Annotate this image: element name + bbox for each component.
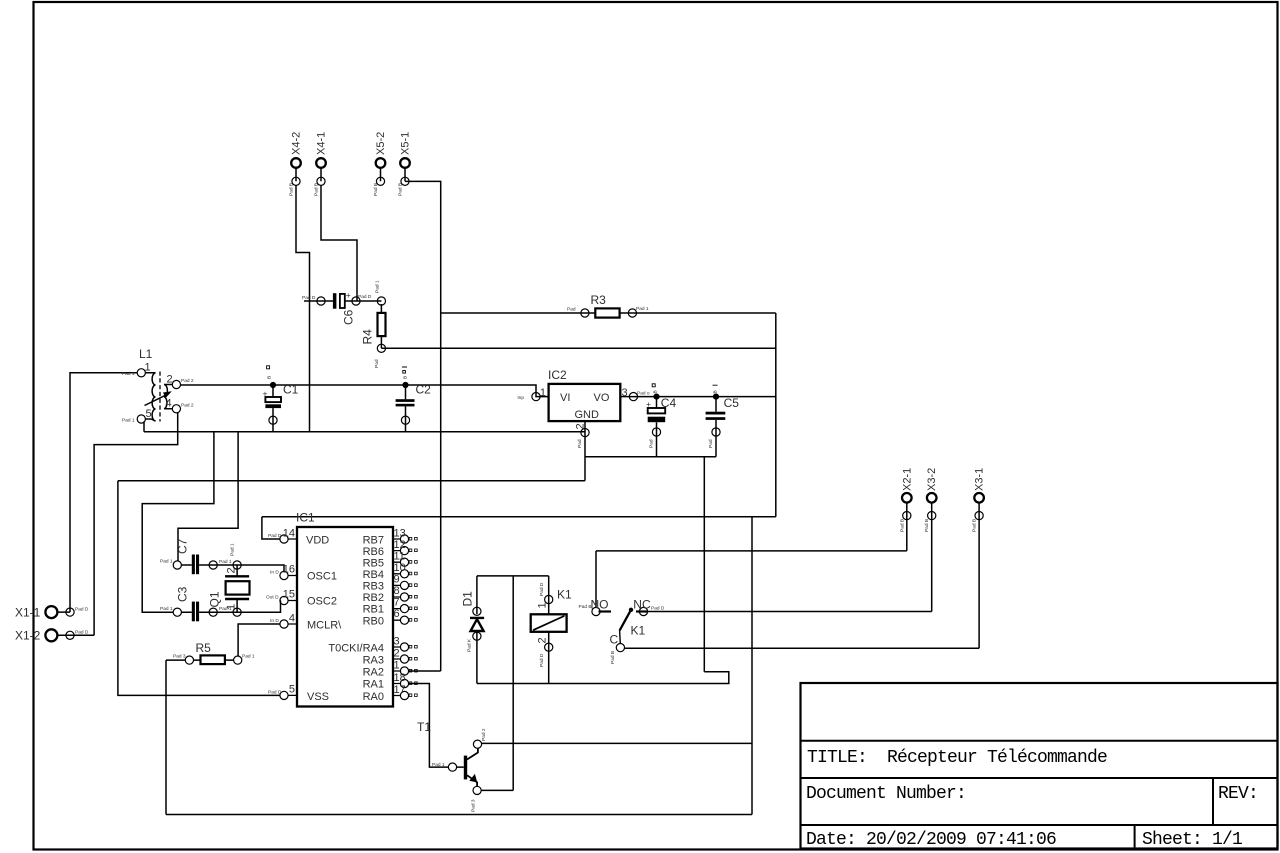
svg-text:Inp: Inp (517, 395, 524, 401)
svg-text:B: B (653, 390, 659, 393)
svg-text:Pad D: Pad D (358, 294, 372, 300)
svg-text:RB1: RB1 (363, 604, 384, 616)
svg-text:Pad 2: Pad 2 (181, 402, 194, 408)
svg-text:Pad 3: Pad 3 (173, 654, 186, 660)
svg-text:C6: C6 (342, 309, 356, 325)
svg-text:In D: In D (270, 570, 279, 576)
svg-text:K1: K1 (557, 588, 572, 602)
svg-text:Pad 1: Pad 1 (375, 280, 381, 293)
svg-text:K1: K1 (631, 624, 646, 638)
svg-text:Pad 2: Pad 2 (481, 728, 487, 741)
svg-text:4: 4 (289, 613, 295, 625)
svg-text:OSC2: OSC2 (307, 596, 337, 608)
svg-text:Pad 1: Pad 1 (219, 606, 232, 612)
svg-text:C3: C3 (175, 586, 189, 602)
svg-text:Pad 1: Pad 1 (242, 654, 255, 660)
svg-text:Pad D: Pad D (651, 606, 665, 612)
svg-text:VSS: VSS (307, 691, 329, 703)
svg-text:2: 2 (394, 648, 400, 660)
svg-text:L1: L1 (139, 347, 153, 361)
svg-text:Pad 1: Pad 1 (432, 762, 445, 768)
svg-text:VO: VO (594, 392, 610, 404)
svg-text:Sheet: 1/1: Sheet: 1/1 (1142, 830, 1242, 850)
svg-text:14: 14 (283, 528, 295, 540)
svg-text:+: + (346, 290, 351, 300)
svg-text:X1-1: X1-1 (15, 606, 41, 620)
svg-text:R3: R3 (591, 293, 607, 307)
svg-text:Pad 1: Pad 1 (160, 606, 173, 612)
svg-text:NO: NO (591, 598, 609, 612)
svg-text:Pad 1: Pad 1 (122, 417, 135, 423)
svg-text:REV:: REV: (1218, 784, 1258, 804)
svg-text:Pad D: Pad D (75, 607, 89, 613)
svg-text:B: B (403, 376, 409, 379)
svg-text:12: 12 (394, 539, 406, 551)
svg-text:Pad B: Pad B (398, 183, 404, 196)
svg-text:Pad 1: Pad 1 (230, 543, 236, 556)
svg-text:IC2: IC2 (548, 368, 567, 382)
svg-text:Document Number:: Document Number: (806, 784, 966, 804)
svg-text:3: 3 (622, 387, 628, 399)
svg-text:17: 17 (394, 684, 406, 696)
svg-text:C5: C5 (724, 396, 740, 410)
svg-text:Pad 1: Pad 1 (636, 306, 649, 312)
svg-text:X3-2: X3-2 (926, 468, 938, 491)
svg-text:Pad D: Pad D (302, 295, 316, 301)
svg-text:RA2: RA2 (363, 667, 384, 679)
svg-text:X3-1: X3-1 (974, 468, 986, 491)
svg-text:Pad 3: Pad 3 (471, 799, 477, 812)
svg-text:TITLE: Récepteur Télécommande: TITLE: Récepteur Télécommande (807, 748, 1107, 768)
svg-text:Pad B: Pad B (579, 604, 592, 610)
svg-text:+: + (263, 389, 268, 399)
svg-text:Pad B: Pad B (899, 519, 905, 532)
svg-text:Out D: Out D (266, 595, 279, 601)
svg-text:C: C (610, 633, 619, 647)
svg-text:B: B (267, 376, 273, 379)
svg-text:1: 1 (537, 602, 549, 608)
svg-text:In D: In D (270, 618, 279, 624)
svg-text:Pad K: Pad K (467, 638, 473, 652)
svg-text:IC1: IC1 (296, 511, 315, 525)
svg-text:11: 11 (394, 551, 405, 563)
svg-text:T1: T1 (417, 720, 431, 734)
svg-text:C4: C4 (661, 396, 677, 410)
svg-text:RB7: RB7 (363, 535, 384, 547)
svg-text:VDD: VDD (306, 535, 329, 547)
svg-text:Pad D: Pad D (539, 653, 545, 667)
svg-text:16: 16 (283, 564, 295, 576)
svg-text:NC: NC (633, 597, 651, 611)
svg-text:Pad D: Pad D (75, 630, 89, 636)
svg-text:RA1: RA1 (363, 679, 384, 691)
svg-text:OSC1: OSC1 (307, 571, 337, 583)
svg-text:Pad B: Pad B (924, 519, 930, 532)
svg-text:T0CKI/RA4: T0CKI/RA4 (328, 643, 384, 655)
svg-text:6: 6 (394, 608, 400, 620)
svg-text:Pad B: Pad B (314, 183, 320, 196)
svg-text:C2: C2 (416, 383, 432, 397)
svg-text:13: 13 (394, 528, 406, 540)
svg-text:10: 10 (394, 562, 406, 574)
svg-text:Pad B: Pad B (373, 183, 379, 196)
svg-text:R4: R4 (361, 329, 375, 345)
svg-text:RB6: RB6 (363, 546, 384, 558)
svg-text:RB4: RB4 (363, 569, 384, 581)
svg-text:VI: VI (560, 392, 570, 404)
svg-text:5: 5 (146, 408, 152, 420)
svg-text:2: 2 (167, 374, 173, 386)
svg-text:2: 2 (575, 423, 587, 429)
svg-text:3: 3 (394, 636, 400, 648)
svg-text:Pad: Pad (567, 307, 576, 313)
svg-text:Pad D: Pad D (268, 690, 282, 696)
svg-text:Pad 2: Pad 2 (181, 378, 194, 384)
svg-text:RB0: RB0 (363, 616, 384, 628)
svg-text:Q1: Q1 (208, 591, 222, 607)
svg-text:7: 7 (394, 597, 400, 609)
svg-text:RA0: RA0 (363, 691, 384, 703)
svg-text:1: 1 (145, 362, 151, 374)
svg-text:5: 5 (289, 684, 295, 696)
svg-text:9: 9 (394, 574, 400, 586)
svg-text:RB5: RB5 (363, 558, 384, 570)
svg-text:C7: C7 (175, 538, 189, 554)
svg-text:RA3: RA3 (363, 655, 384, 667)
svg-text:RB2: RB2 (363, 592, 384, 604)
svg-text:Pad: Pad (708, 439, 714, 448)
svg-text:8: 8 (394, 585, 400, 597)
svg-text:C1: C1 (283, 383, 299, 397)
svg-text:B: B (713, 390, 719, 393)
svg-text:Pad 1: Pad 1 (122, 371, 135, 377)
svg-text:Pad: Pad (649, 439, 655, 448)
svg-text:Pad 1: Pad 1 (219, 559, 232, 565)
svg-text:RB3: RB3 (363, 581, 384, 593)
svg-text:GND: GND (575, 409, 600, 421)
svg-text:Date: 20/02/2009 07:41:06: Date: 20/02/2009 07:41:06 (806, 830, 1056, 850)
svg-text:X1-2: X1-2 (15, 629, 41, 643)
svg-text:X5-2: X5-2 (375, 132, 387, 155)
svg-text:4: 4 (166, 398, 172, 410)
svg-text:1: 1 (540, 387, 546, 399)
svg-text:+: + (646, 399, 651, 409)
svg-text:Pad B: Pad B (610, 651, 616, 664)
svg-text:Pad B: Pad B (289, 183, 295, 196)
svg-text:X5-1: X5-1 (400, 132, 412, 155)
svg-text:D1: D1 (461, 591, 475, 607)
svg-text:Pad D: Pad D (539, 582, 545, 596)
svg-text:Pad: Pad (577, 439, 583, 448)
svg-text:X2-1: X2-1 (901, 468, 913, 491)
svg-text:Pad o: Pad o (637, 391, 650, 397)
svg-text:X4-2: X4-2 (291, 132, 303, 155)
svg-text:X4-1: X4-1 (316, 132, 328, 155)
svg-text:Pad: Pad (374, 359, 380, 368)
svg-text:18: 18 (394, 672, 406, 684)
svg-text:2: 2 (537, 637, 549, 643)
svg-text:R5: R5 (196, 641, 212, 655)
svg-text:Pad D: Pad D (268, 533, 282, 539)
svg-text:MCLR\: MCLR\ (307, 620, 342, 632)
svg-text:Pad B: Pad B (972, 519, 978, 532)
svg-text:1: 1 (394, 660, 400, 672)
svg-text:15: 15 (283, 589, 295, 601)
svg-text:2: 2 (226, 567, 238, 573)
svg-text:Pad 1: Pad 1 (160, 559, 173, 565)
